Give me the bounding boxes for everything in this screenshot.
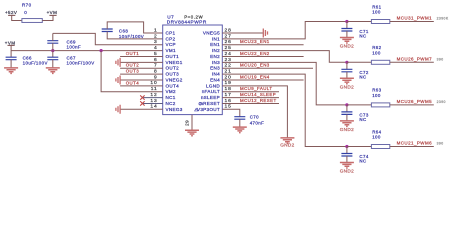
svg-text:GND2: GND2 xyxy=(340,127,354,132)
svg-text:VNEG1: VNEG1 xyxy=(166,60,183,65)
svg-text:MCU14_SLEEP: MCU14_SLEEP xyxy=(240,92,276,97)
junction xyxy=(345,61,348,64)
wire pin 20 xyxy=(222,79,303,81)
svg-text:100nF: 100nF xyxy=(67,44,82,49)
svg-text:IN3: IN3 xyxy=(212,60,220,65)
capacitor C74 xyxy=(346,147,348,154)
ground VNEG xyxy=(116,58,120,67)
svg-text:1: 1 xyxy=(154,27,158,33)
svg-text:OUT2: OUT2 xyxy=(126,63,140,68)
svg-text:nRESET: nRESET xyxy=(200,101,220,106)
svg-text:C70: C70 xyxy=(250,115,259,120)
svg-text:25: 25 xyxy=(225,45,232,51)
svg-text:DRV8844PWPR: DRV8844PWPR xyxy=(167,20,207,26)
pin 12 no-connect xyxy=(142,97,162,99)
wire LGND xyxy=(222,86,287,138)
ground xyxy=(185,130,199,136)
wire IN pin 25 xyxy=(222,51,347,63)
svg-text:VM2: VM2 xyxy=(166,89,176,94)
wire VNEG pin 9 xyxy=(120,79,163,81)
svg-text:IN4: IN4 xyxy=(212,72,220,77)
capacitor C67 xyxy=(52,51,54,58)
wire +VM bus to pin 4 VM1 xyxy=(11,50,163,52)
svg-text:390: 390 xyxy=(437,57,444,61)
ground GND2 xyxy=(340,78,354,84)
svg-text:EN1: EN1 xyxy=(210,42,220,47)
svg-text:2390: 2390 xyxy=(437,100,446,104)
svg-text:VM1: VM1 xyxy=(166,48,176,53)
capacitor C66 xyxy=(10,51,12,58)
wire IN pin 27 xyxy=(222,22,347,39)
wire xyxy=(390,21,434,23)
junction xyxy=(345,145,348,148)
svg-text:IN1: IN1 xyxy=(212,36,220,41)
pin 29 thermal pad xyxy=(191,115,193,131)
svg-text:VCP: VCP xyxy=(166,42,176,47)
svg-text:3: 3 xyxy=(154,39,158,45)
wire IN pin 21 xyxy=(222,74,347,146)
svg-text:MCU9_FAULT: MCU9_FAULT xyxy=(240,86,272,91)
svg-text:LGND: LGND xyxy=(206,83,220,88)
svg-text:IN2: IN2 xyxy=(212,48,220,53)
svg-text:VNEG5: VNEG5 xyxy=(203,31,220,36)
svg-text:R61: R61 xyxy=(372,4,381,9)
junction xyxy=(345,103,348,106)
wire VCP xyxy=(53,33,163,44)
svg-text:EN2: EN2 xyxy=(210,54,220,59)
svg-text:R63: R63 xyxy=(372,88,381,93)
svg-text:MCU22_EN2: MCU22_EN2 xyxy=(240,51,270,56)
svg-text:MCU12_RESET: MCU12_RESET xyxy=(240,98,277,103)
svg-text:R64: R64 xyxy=(372,129,381,134)
wire xyxy=(10,45,12,50)
svg-text:MCU31_PWM1: MCU31_PWM1 xyxy=(397,16,433,21)
svg-text:OUT3: OUT3 xyxy=(126,69,140,74)
svg-text:U7: U7 xyxy=(167,14,174,19)
svg-text:+VM: +VM xyxy=(47,10,58,15)
svg-text:GND2: GND2 xyxy=(340,169,354,174)
svg-text:+52V: +52V xyxy=(5,10,17,15)
wire pin 18 xyxy=(222,91,279,93)
wire OUT pin 7 xyxy=(120,67,163,69)
svg-text:2390K: 2390K xyxy=(437,17,449,21)
svg-text:26: 26 xyxy=(225,39,232,45)
wire pin 22 xyxy=(222,67,313,69)
wire xyxy=(390,146,434,148)
ground xyxy=(233,127,247,133)
svg-text:100: 100 xyxy=(372,51,381,56)
junction xyxy=(51,49,54,52)
capacitor C69 xyxy=(47,41,58,44)
ground xyxy=(4,68,18,74)
wire CP2 xyxy=(107,32,163,39)
capacitor C73 xyxy=(346,105,348,112)
svg-text:2: 2 xyxy=(154,33,158,39)
svg-text:OUT1: OUT1 xyxy=(126,51,140,56)
wire IN pin 23 xyxy=(222,62,347,105)
capacitor C72 xyxy=(346,62,348,69)
wire pin 24 xyxy=(222,55,303,57)
svg-text:GND2: GND2 xyxy=(340,84,354,89)
svg-text:MCU26_PWM7: MCU26_PWM7 xyxy=(397,57,433,62)
svg-text:OUT4: OUT4 xyxy=(166,83,180,88)
svg-text:100: 100 xyxy=(372,93,381,98)
svg-text:NC: NC xyxy=(359,34,366,39)
svg-text:OUT2: OUT2 xyxy=(166,66,180,71)
junction xyxy=(100,49,103,52)
wire OUT pin 10 xyxy=(120,85,163,87)
svg-text:GND2: GND2 xyxy=(280,143,294,148)
capacitor C68 xyxy=(102,29,113,32)
svg-text:V3P3OUT: V3P3OUT xyxy=(197,107,220,112)
ground GND2 xyxy=(340,163,354,169)
ground VNEG5 xyxy=(263,29,267,38)
svg-text:EN3: EN3 xyxy=(210,66,220,71)
svg-text:470nF: 470nF xyxy=(250,120,265,125)
wire VNEG pin 6 xyxy=(120,61,163,63)
wire V3P3OUT xyxy=(222,109,240,116)
wire CP1 xyxy=(107,22,163,33)
svg-text:VNEG2: VNEG2 xyxy=(166,77,183,82)
wire VNEG pin 14 xyxy=(120,108,163,110)
svg-text:VNEG3: VNEG3 xyxy=(166,107,183,112)
wire VM2 xyxy=(101,51,163,92)
svg-text:4: 4 xyxy=(154,45,158,51)
wire xyxy=(42,15,53,20)
svg-text:OUT3: OUT3 xyxy=(166,72,180,77)
svg-text:390: 390 xyxy=(437,142,444,146)
svg-text:NC: NC xyxy=(359,117,366,122)
svg-text:13: 13 xyxy=(150,98,157,104)
ground VNEG xyxy=(116,75,120,84)
resistor R64 xyxy=(347,146,372,148)
svg-text:MCU26_PWM5: MCU26_PWM5 xyxy=(397,99,433,104)
ground VNEG xyxy=(116,105,120,114)
svg-text:100: 100 xyxy=(372,135,381,140)
svg-text:EN4: EN4 xyxy=(210,77,220,82)
svg-text:NC2: NC2 xyxy=(166,101,176,106)
op-amp U1 body (driver IC U7 DRV8844PWPR) xyxy=(163,25,223,115)
svg-text:NC: NC xyxy=(359,75,366,80)
pin 13 no-connect xyxy=(142,102,162,104)
wire pin 26 xyxy=(222,44,303,46)
svg-text:10uF/100V: 10uF/100V xyxy=(23,61,48,66)
svg-text:29: 29 xyxy=(185,120,190,126)
ground GND2 xyxy=(340,38,354,44)
resistor R70 xyxy=(22,19,42,23)
wire pin 17 xyxy=(222,97,279,99)
ground GND2 xyxy=(280,138,294,144)
svg-text:R70: R70 xyxy=(22,2,32,7)
ground GND2 xyxy=(340,121,354,127)
capacitor C71 xyxy=(346,22,348,29)
wire VNEG5 xyxy=(222,32,263,34)
svg-text:OUT1: OUT1 xyxy=(166,54,180,59)
svg-text:MCU23_EN1: MCU23_EN1 xyxy=(240,39,270,44)
svg-text:GND2: GND2 xyxy=(340,44,354,49)
svg-text:MCU21_PWM6: MCU21_PWM6 xyxy=(397,141,433,146)
svg-text:11: 11 xyxy=(151,86,158,92)
svg-text:OUT4: OUT4 xyxy=(126,80,140,85)
svg-text:NC: NC xyxy=(359,159,366,164)
svg-text:nFAULT: nFAULT xyxy=(202,89,220,94)
svg-text:NC1: NC1 xyxy=(166,95,176,100)
svg-text:100nF/100V: 100nF/100V xyxy=(67,61,95,66)
pin 15 V3P3OUT triangle xyxy=(195,108,198,111)
resistor R62 xyxy=(347,61,372,63)
svg-text:MCU19_EN4: MCU19_EN4 xyxy=(240,74,270,79)
svg-text:C68: C68 xyxy=(119,28,128,33)
svg-text:CP2: CP2 xyxy=(166,36,176,41)
svg-text:10nF/100V: 10nF/100V xyxy=(119,34,144,39)
svg-text:nSLEEP: nSLEEP xyxy=(201,95,220,100)
wire xyxy=(390,104,434,106)
svg-text:100: 100 xyxy=(372,10,381,15)
wire OUT pin 5 xyxy=(120,55,163,57)
wire pin 16 xyxy=(222,102,279,104)
svg-text:+VM: +VM xyxy=(5,40,16,45)
svg-text:0: 0 xyxy=(24,10,27,15)
svg-text:P=0.2W: P=0.2W xyxy=(184,14,203,19)
svg-text:R62: R62 xyxy=(372,45,381,50)
resistor R61 xyxy=(347,21,372,23)
svg-text:CP1: CP1 xyxy=(166,31,176,36)
ground xyxy=(46,68,60,74)
capacitor C70 xyxy=(234,117,245,120)
junction xyxy=(345,20,348,23)
svg-text:16: 16 xyxy=(225,98,232,104)
resistor R63 xyxy=(347,104,372,106)
svg-text:MCU20_EN3: MCU20_EN3 xyxy=(240,63,270,68)
wire xyxy=(390,61,434,63)
wire OUT pin 8 xyxy=(120,73,163,75)
wire xyxy=(12,15,22,20)
pin 16 nRESET bubble xyxy=(199,102,202,105)
